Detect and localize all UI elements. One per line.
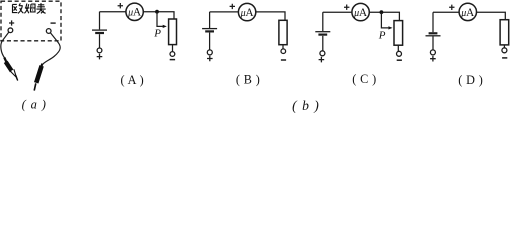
resistor RC: [394, 21, 403, 46]
right probe: [33, 63, 43, 91]
label C terminal minus sign: [397, 59, 402, 61]
svg-text:( C ): ( C ): [352, 72, 376, 86]
wire D battery drop: [432, 12, 434, 32]
left test lead wire: [1, 32, 9, 58]
label P of C: [378, 30, 386, 42]
ohmmeter right terminal: [46, 29, 51, 34]
label A rail plus sign: [118, 3, 123, 8]
wire B battery drop: [209, 12, 211, 28]
wire D meter to resistor: [477, 12, 506, 19]
wiper arrow P of A: [157, 12, 167, 28]
terminal B plus: [207, 50, 212, 55]
caption (A): [120, 73, 144, 87]
battery GD negative plate: [429, 32, 438, 34]
terminal C plus: [320, 51, 325, 56]
svg-text:( a ): ( a ): [22, 97, 47, 111]
svg-text:μA: μA: [353, 7, 368, 19]
label A terminal plus sign: [97, 54, 103, 60]
terminal D plus: [430, 50, 435, 55]
caption (D): [458, 73, 483, 87]
label C terminal plus sign: [319, 57, 325, 63]
left probe: [3, 57, 18, 81]
ammeter A (microammeter): [126, 3, 143, 20]
svg-text:μA: μA: [240, 7, 255, 19]
terminal D minus: [502, 48, 507, 53]
junction dot A: [155, 10, 159, 14]
svg-text:( B ): ( B ): [236, 73, 260, 87]
caption (b): [292, 98, 320, 114]
ohmmeter dashed box: [1, 1, 61, 41]
label D terminal plus sign: [430, 56, 436, 62]
wire A battery drop: [99, 12, 101, 30]
wire C meter to resistor: [369, 12, 399, 20]
wire C battery drop: [322, 12, 324, 31]
caption (C): [352, 72, 376, 86]
battery GA positive plate: [92, 29, 107, 31]
svg-text:μA: μA: [460, 7, 475, 19]
resistor RB: [279, 20, 287, 44]
label C rail plus sign: [344, 5, 349, 10]
svg-text:P: P: [378, 30, 386, 42]
caption (B): [236, 73, 260, 87]
caption (a): [22, 97, 47, 111]
wire A meter to resistor: [143, 12, 174, 19]
svg-text:( A ): ( A ): [120, 73, 144, 87]
wire B meter to resistor: [256, 12, 285, 20]
battery GD positive plate: [426, 35, 441, 37]
label B terminal minus sign: [281, 59, 286, 61]
battery GC positive plate: [315, 31, 330, 33]
ohmmeter plus terminal label: [9, 20, 14, 25]
battery GA negative plate: [95, 32, 104, 34]
ammeter B (microammeter): [238, 3, 255, 20]
wire C top rail left: [323, 11, 352, 13]
ohmmeter label "姆": [24, 4, 35, 14]
wire A top rail left: [100, 11, 127, 13]
wire B top rail left: [210, 11, 239, 13]
svg-text:( D ): ( D ): [458, 73, 483, 87]
label B rail plus sign: [230, 4, 235, 9]
ohmmeter label "欧": [13, 3, 24, 13]
ohmmeter label "表": [36, 3, 45, 13]
ohmmeter minus terminal label: [51, 22, 56, 24]
battery GB negative plate: [205, 30, 214, 32]
right test lead wire: [42, 33, 60, 65]
wire A resistor to terminal: [172, 45, 174, 52]
wire D battery to terminal: [432, 36, 434, 49]
wiper arrow P of C: [381, 12, 392, 29]
wire D top rail left: [433, 11, 459, 13]
wire C battery to terminal: [322, 36, 324, 51]
label A terminal minus sign: [170, 59, 175, 61]
label D terminal minus sign: [502, 57, 507, 59]
wire B battery to terminal: [209, 33, 211, 50]
ohmmeter left terminal: [8, 28, 13, 33]
terminal A minus: [170, 52, 175, 57]
label D rail plus sign: [449, 5, 454, 10]
battery GC negative plate: [318, 33, 327, 35]
svg-text:μA: μA: [127, 7, 142, 19]
terminal B minus: [281, 49, 286, 54]
label P of A: [153, 28, 161, 40]
terminal C minus: [397, 51, 402, 56]
resistor RD: [500, 20, 509, 45]
svg-text:P: P: [153, 28, 161, 40]
wire B resistor to terminal: [282, 45, 284, 49]
wire A battery to terminal: [99, 34, 101, 48]
wire C resistor to terminal: [397, 45, 399, 51]
label B terminal plus sign: [207, 56, 213, 62]
ammeter D (microammeter): [459, 3, 476, 20]
wire D resistor to terminal: [503, 45, 505, 48]
terminal A plus: [97, 48, 102, 53]
svg-text:( b ): ( b ): [292, 98, 320, 114]
ammeter C (microammeter): [352, 3, 369, 20]
junction dot C: [380, 10, 384, 14]
resistor RA: [169, 19, 177, 45]
battery GB positive plate: [202, 28, 217, 30]
